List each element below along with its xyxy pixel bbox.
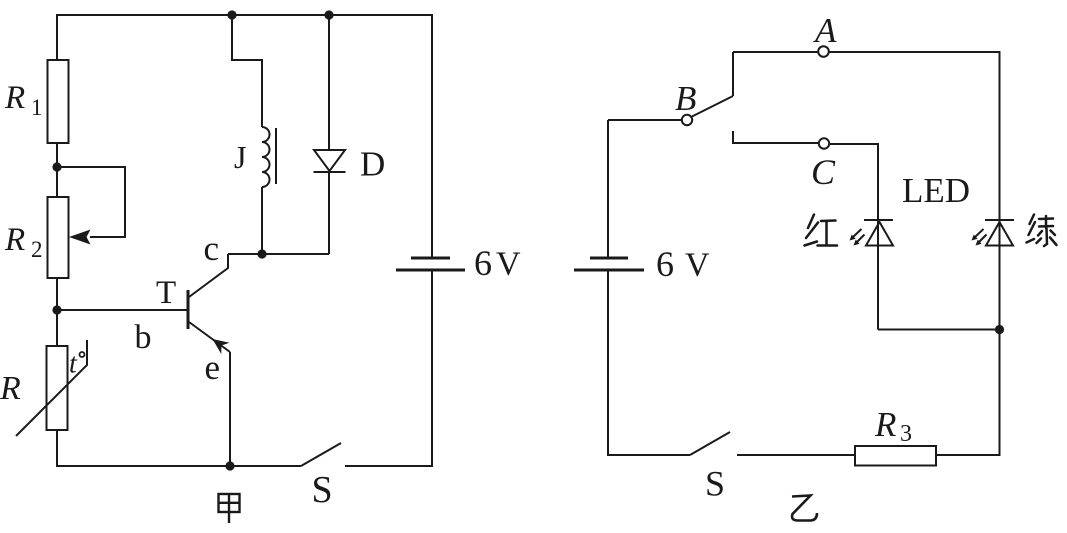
svg-text:C: C [811, 152, 836, 192]
resistor R3 [855, 446, 936, 466]
wire red LED to common node [878, 329, 1000, 331]
transistor T base bar [187, 290, 190, 329]
junction node top J [227, 10, 236, 19]
svg-text:S: S [705, 464, 725, 504]
relay coil J core bar [275, 128, 277, 184]
junction node base [52, 305, 61, 314]
wire bottom middle [737, 454, 855, 456]
svg-text:V: V [496, 246, 521, 283]
wire R3 to right rail [936, 454, 1000, 456]
switch S blade (right circuit) [690, 432, 730, 455]
svg-text:B: B [675, 79, 696, 118]
wire R1 to R2 [56, 143, 58, 197]
wire red LED branch upper [877, 143, 879, 330]
wire R to bottom rail [56, 430, 58, 467]
wire wiper loop [57, 167, 125, 237]
thermistor R body [47, 346, 68, 430]
wiper arrowhead of rheostat R2 [69, 230, 91, 245]
svg-text:1: 1 [31, 95, 43, 120]
terminal A circle [818, 46, 829, 57]
transistor T collector lead [189, 254, 228, 297]
wire C rail left part [733, 142, 819, 144]
wire top rail (A) left part [733, 51, 818, 53]
red LED light arrow 1 [853, 229, 862, 237]
red LED cathode bar [864, 219, 893, 221]
svg-text:t: t [69, 349, 78, 380]
battery 6V right: long plate [574, 269, 644, 272]
svg-text:LED: LED [902, 171, 970, 210]
svg-text:D: D [360, 145, 385, 184]
wire node c horizontal [228, 253, 329, 255]
wire bottom rail left [56, 465, 301, 467]
svg-text:S: S [312, 469, 333, 511]
svg-text:e: e [205, 348, 221, 387]
wire to relay coil J [232, 15, 262, 127]
svg-text:b: b [135, 319, 152, 356]
diode D cathode bar [314, 171, 346, 173]
red LED light arrow 2 [857, 235, 865, 243]
junction node LED common [995, 325, 1004, 334]
svg-text:6: 6 [656, 244, 674, 284]
wire bottom left [607, 454, 690, 456]
wire right rail (green LED branch) [999, 52, 1001, 456]
resistor R2 (rheostat) [48, 197, 69, 278]
transistor T emitter lead [189, 322, 230, 352]
junction node emitter-bottom [225, 461, 234, 470]
terminal B circle [682, 115, 692, 125]
label lv (绿) green [1027, 215, 1057, 247]
svg-text:T: T [156, 275, 176, 311]
junction node c [257, 249, 266, 258]
wire top rail left [57, 14, 432, 16]
resistor R1 [48, 60, 69, 143]
wire left rail top [56, 14, 58, 61]
green LED triangle [986, 222, 1013, 246]
wire base [57, 309, 187, 311]
svg-text:3: 3 [900, 421, 912, 447]
wire right rail lower [431, 270, 433, 467]
svg-text:R: R [874, 405, 896, 444]
wire B to left rail [608, 119, 682, 121]
terminal C circle [819, 138, 829, 148]
green LED cathode bar [985, 219, 1014, 221]
wire left rail lower [607, 270, 609, 456]
wire right rail upper [431, 14, 433, 258]
green LED light arrow 2 [979, 235, 987, 243]
red LED triangle [866, 222, 893, 246]
label hong (红) red [805, 215, 838, 246]
junction node top D [324, 10, 333, 19]
transistor T emitter arrowhead [213, 339, 230, 354]
svg-text:R: R [0, 370, 21, 407]
wire R2 to R [56, 278, 58, 346]
wire coil J to node c [261, 187, 263, 254]
svg-text:V: V [685, 247, 710, 284]
wire left rail upper [607, 120, 609, 258]
battery 6V right: short plate [590, 257, 628, 260]
wire A contact drop [732, 52, 734, 96]
svg-text:R: R [4, 80, 25, 116]
wire top to diode D [328, 14, 330, 150]
svg-text:R: R [4, 222, 25, 258]
label jia (甲) [219, 494, 240, 523]
relay coil J windings [262, 127, 270, 187]
junction node R1-R2 [52, 162, 61, 171]
svg-text:A: A [813, 11, 837, 50]
green LED light arrow 1 [975, 229, 984, 237]
wire emitter to bottom rail [229, 352, 231, 466]
switch blade B [691, 96, 733, 117]
svg-text:J: J [234, 139, 246, 175]
svg-text:c: c [204, 229, 220, 268]
wire top rail (A) right part [829, 51, 1001, 53]
svg-text:2: 2 [31, 237, 43, 262]
wire C contact stub [732, 131, 734, 144]
battery 6V left: short plate [411, 257, 450, 260]
thermistor diagonal stroke [16, 340, 87, 436]
label yi (乙) [792, 496, 817, 521]
switch S blade (left circuit) [301, 443, 341, 466]
battery 6V left: long plate [396, 269, 465, 272]
diode D triangle [314, 150, 345, 171]
wire C rail right part [829, 143, 878, 145]
svg-text:6: 6 [474, 243, 492, 283]
wire bottom rail right [345, 465, 433, 467]
wire diode D to node c [328, 172, 330, 254]
